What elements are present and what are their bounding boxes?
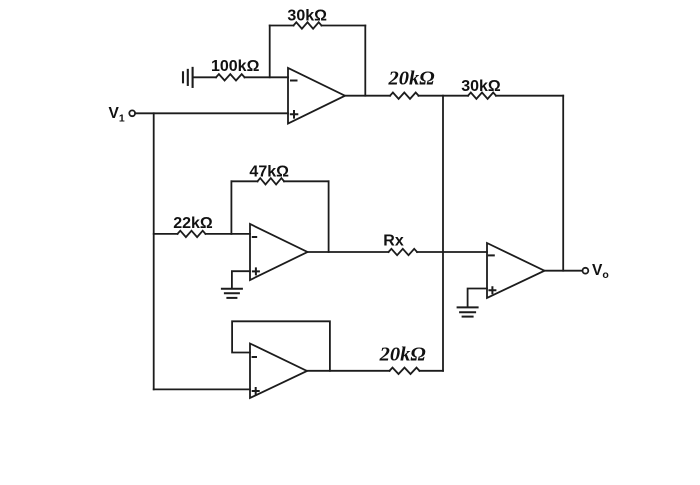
svg-text:Rx: Rx — [383, 233, 404, 250]
resistor 20k (top, U1 output to summing node) — [390, 93, 419, 99]
wire bus bottom to U3 + input — [154, 388, 250, 390]
U3 inverting pin mark — [253, 356, 256, 358]
resistor Rx — [389, 249, 418, 255]
terminal Vo — [583, 268, 589, 274]
wire right vertical to output node — [562, 96, 564, 271]
svg-text:Vo: Vo — [592, 262, 609, 281]
op-amp U3 — [250, 344, 307, 399]
wire feedback right vertical to U1 output — [364, 26, 366, 96]
wire U4 + input to ground — [468, 289, 487, 307]
wire U2 output — [308, 251, 389, 253]
wire 47k feedback left vertical — [230, 181, 232, 234]
wire resistor 100k to U1 - input — [245, 76, 289, 78]
wire left vertical bus — [153, 113, 155, 389]
wire V1 to op-amp U1 + input — [135, 112, 288, 114]
resistor 20k (bottom, U3 output to summing node) — [390, 368, 420, 374]
wire feedback top right — [322, 25, 366, 27]
svg-text:20kΩ: 20kΩ — [387, 67, 434, 89]
wire 47k right vertical to U2 output — [328, 181, 330, 252]
ground G1 (rotated, at 100k input) — [183, 68, 193, 87]
wire G1 to resistor 100k — [194, 76, 217, 78]
ground G3 (below U4) — [458, 307, 478, 316]
resistor 47k — [258, 178, 285, 184]
wire Rx to U4 - input — [417, 251, 487, 253]
svg-text:22kΩ: 22kΩ — [173, 215, 213, 232]
wire U2 + input to ground — [232, 271, 250, 287]
svg-text:100kΩ: 100kΩ — [211, 58, 260, 75]
wire 22k to U2 - input — [206, 233, 251, 235]
U1 inverting pin mark — [291, 80, 297, 82]
wire summing node vertical — [442, 96, 444, 371]
resistor 30k feedback — [294, 22, 322, 28]
resistor 22k — [178, 231, 206, 237]
svg-text:30kΩ: 30kΩ — [461, 78, 501, 95]
U4 inverting pin mark — [489, 254, 494, 256]
wire feedback top left — [270, 25, 294, 27]
U4 non-inverting pin mark — [489, 287, 495, 293]
ground G2 (below U2) — [222, 289, 242, 298]
wire U4 output to terminal — [545, 270, 583, 272]
U2 non-inverting pin mark — [253, 268, 259, 274]
svg-text:30kΩ: 30kΩ — [287, 8, 327, 25]
wire 20k to 30k, summing node junction — [419, 95, 469, 97]
wire U3 output — [307, 370, 390, 372]
svg-text:47kΩ: 47kΩ — [249, 164, 289, 181]
svg-text:20kΩ: 20kΩ — [379, 343, 426, 365]
wire U3 feedback loop (output to - input) — [232, 321, 330, 371]
op-amp U1 — [288, 68, 345, 124]
U1 non-inverting pin mark — [291, 111, 298, 118]
U2 inverting pin mark — [253, 236, 256, 238]
resistor 100k — [216, 74, 245, 80]
wire 30k to right corner — [496, 95, 563, 97]
U3 non-inverting pin mark — [253, 388, 259, 394]
wire 47k top right — [284, 180, 329, 182]
svg-text:V1: V1 — [109, 105, 125, 125]
op-amp U4 — [487, 243, 545, 298]
resistor 30k (right, feedback of U4) — [468, 93, 496, 99]
wire 47k feedback top left — [231, 180, 257, 182]
wire bus to resistor 22k — [154, 233, 178, 235]
terminal V1 — [129, 110, 135, 116]
wire feedback left vertical (node at - input) — [269, 26, 271, 78]
op-amp U2 — [250, 224, 308, 280]
wire 20k bottom to summing vertical — [420, 370, 444, 372]
wire U1 output — [345, 95, 390, 97]
